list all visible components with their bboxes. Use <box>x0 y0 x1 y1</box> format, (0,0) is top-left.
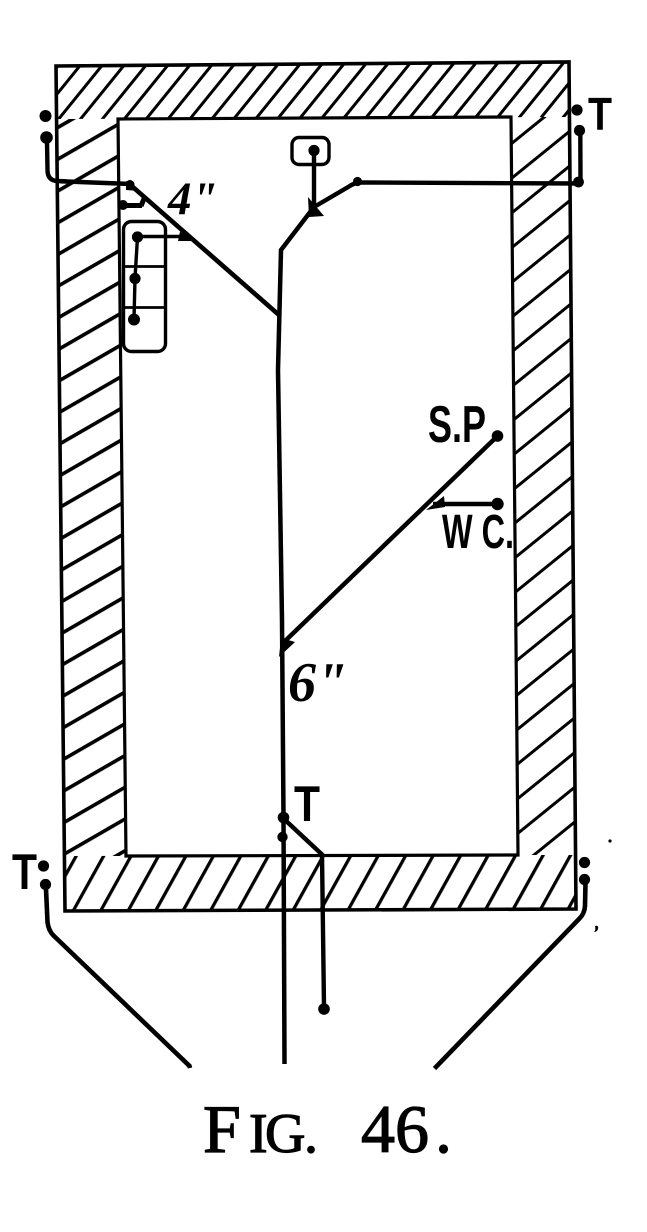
wall left band hatching <box>57 119 126 856</box>
trap T bottom-left: stem and diagonal drain <box>46 889 190 1068</box>
trap T bottom-left: upper dot <box>38 860 49 871</box>
wire: horizontal drain through left wall <box>60 181 130 184</box>
trap T top-right: lower dot <box>574 125 585 136</box>
svg-text:G: G <box>265 1103 305 1165</box>
wall outer outline <box>56 62 576 911</box>
trap node dot lower <box>277 832 287 842</box>
fixture waste horizontal line to diagonal <box>138 235 187 238</box>
pipe 4-inch diagonal <box>130 185 279 316</box>
speck mark <box>594 926 598 932</box>
junction node at left wall <box>126 180 135 189</box>
trap T top-left: lower dot <box>40 131 53 144</box>
junction wedge at 6-inch foot <box>279 638 295 657</box>
svg-text:F: F <box>203 1091 241 1167</box>
tiny dot speck <box>608 839 611 842</box>
node dot at right wall end <box>573 177 584 188</box>
wall bottom band hatching <box>64 855 576 911</box>
svg-text:6": 6" <box>288 652 347 714</box>
trap bottom-right: lower dot <box>579 874 590 885</box>
wall right band hatching <box>511 117 576 855</box>
svg-text:.: . <box>304 1103 318 1165</box>
wall top band hatching <box>56 62 570 119</box>
caption FIG. 46. <box>203 1091 452 1167</box>
junction wedge w.c. <box>426 496 445 510</box>
trap bottom-right: stem and diagonal drain <box>435 883 586 1069</box>
wire: main horizontal drain to right <box>314 183 582 208</box>
svg-text:S.P: S.P <box>428 396 486 454</box>
trap node dot upper <box>278 812 290 824</box>
pipe 6-inch diagonal <box>283 436 498 643</box>
junction wedge center top <box>308 197 324 217</box>
svg-text:4": 4" <box>167 173 218 225</box>
junction wedge left <box>126 181 140 191</box>
fixture box divider 2 <box>124 306 166 309</box>
svg-text:T: T <box>294 776 320 832</box>
trap T bottom-left: lower dot <box>40 879 51 890</box>
node dot on horizontal start <box>353 177 362 186</box>
junction wedge on diagonal <box>178 232 192 242</box>
svg-text:T: T <box>12 844 37 900</box>
trap T top-left: upper dot <box>40 110 52 122</box>
soil pipe S.P end dot <box>492 430 504 442</box>
trap T top-right: upper dot <box>571 104 582 115</box>
fixture waste vertical line <box>134 237 138 320</box>
svg-text:.: . <box>435 1091 452 1167</box>
svg-text:W C.: W C. <box>442 506 514 559</box>
branch to yard drain <box>284 819 324 1007</box>
w.c. branch pipe <box>433 502 497 506</box>
fixture box left (range of fixtures) <box>124 222 166 352</box>
trap T top-left: stem and elbow to drain <box>47 142 66 181</box>
fixture waste dot 1 <box>132 231 143 242</box>
svg-text:4: 4 <box>361 1091 395 1167</box>
svg-text:6: 6 <box>395 1091 429 1167</box>
fixture waste dot 3 <box>128 314 140 326</box>
main vertical soil pipe <box>278 207 314 1064</box>
svg-text:T: T <box>588 88 612 140</box>
yard drain end dot <box>318 1003 330 1015</box>
branch bar with node dot <box>118 200 128 210</box>
fixture top stem <box>312 153 316 208</box>
trap T top-right: stem <box>578 134 583 180</box>
trap bottom-right: upper dot <box>579 857 590 868</box>
fixture box top (small) <box>292 138 329 165</box>
fixture top dot <box>308 145 319 156</box>
w.c. end dot <box>491 498 503 510</box>
fixture box divider 1 <box>124 265 166 268</box>
wall inner outline <box>118 117 518 856</box>
fixture waste dot 2 <box>129 273 140 284</box>
